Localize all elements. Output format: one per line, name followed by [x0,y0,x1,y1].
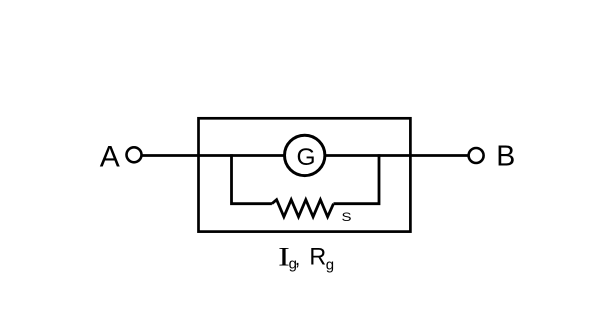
svg-text:g: g [326,256,334,273]
svg-text:R: R [309,244,326,270]
svg-text:A: A [100,141,120,174]
svg-text:B: B [496,140,515,172]
svg-text:G: G [297,144,316,171]
svg-text:S: S [342,210,352,223]
svg-text:,: , [295,249,300,270]
